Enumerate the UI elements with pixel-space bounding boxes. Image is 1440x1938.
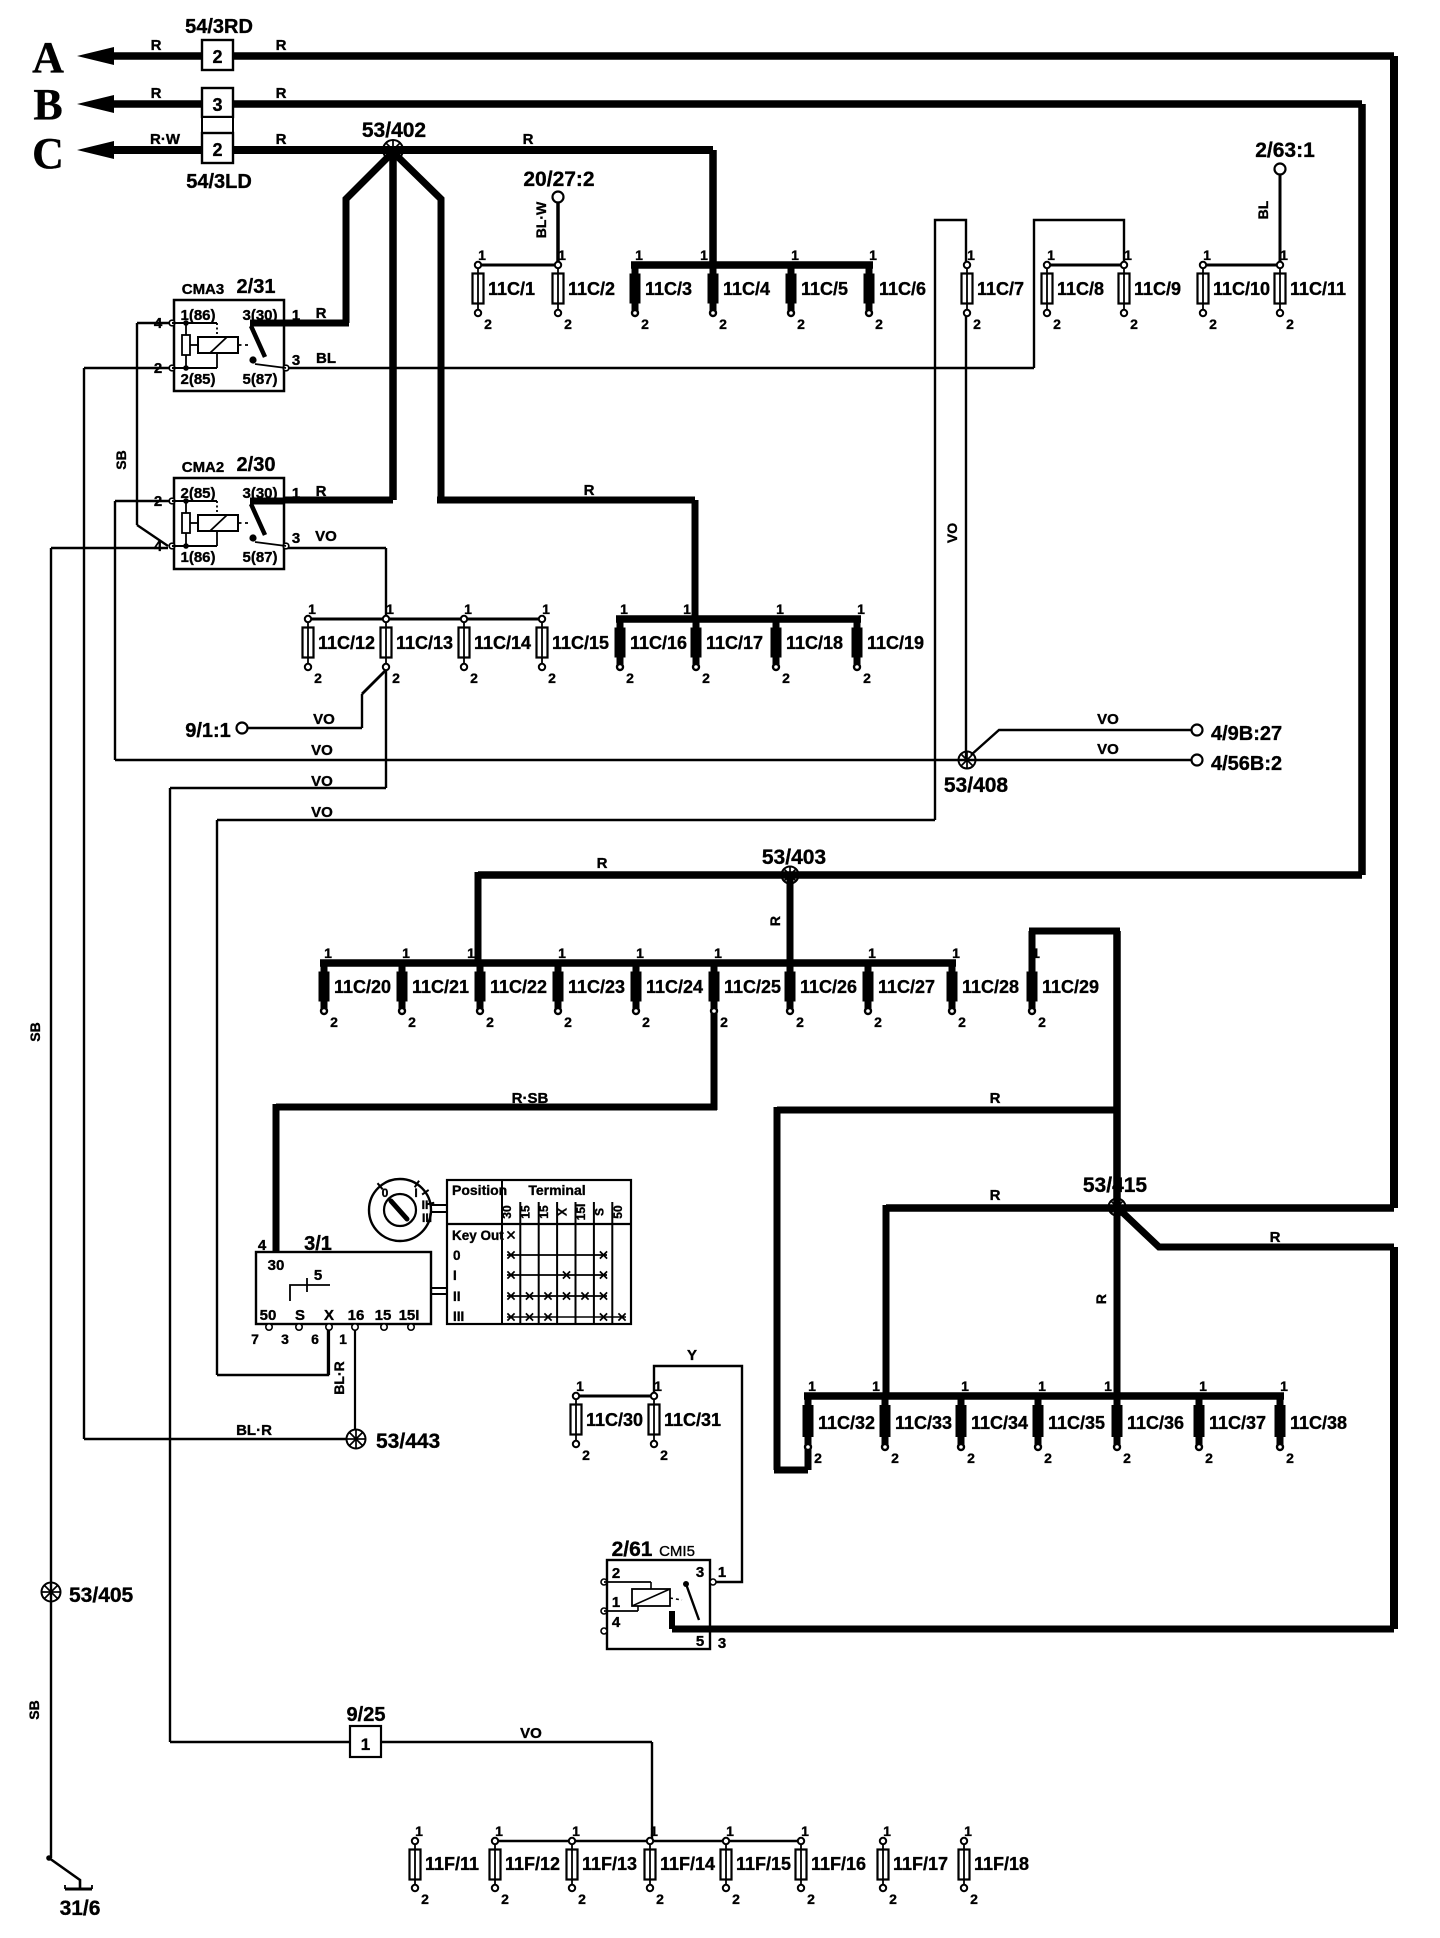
svg-text:53/415: 53/415 xyxy=(1083,1174,1148,1197)
svg-text:2: 2 xyxy=(484,316,492,332)
svg-text:2/61: 2/61 xyxy=(612,1538,653,1561)
svg-text:2: 2 xyxy=(330,1014,338,1030)
svg-text:11C/10: 11C/10 xyxy=(1213,279,1270,299)
svg-text:X: X xyxy=(556,1208,570,1216)
svg-text:3: 3 xyxy=(281,1331,289,1347)
svg-text:11C/8: 11C/8 xyxy=(1057,279,1104,299)
svg-text:1: 1 xyxy=(1104,1378,1112,1394)
svg-text:1: 1 xyxy=(872,1378,880,1394)
svg-text:30: 30 xyxy=(268,1257,285,1274)
svg-text:2: 2 xyxy=(154,360,162,377)
svg-text:2: 2 xyxy=(486,1014,494,1030)
svg-text:1: 1 xyxy=(1038,1378,1046,1394)
svg-text:R: R xyxy=(1270,1229,1281,1246)
svg-text:11C/22: 11C/22 xyxy=(490,977,547,997)
svg-text:R: R xyxy=(767,916,783,926)
svg-text:11C/4: 11C/4 xyxy=(723,279,770,299)
svg-text:11F/16: 11F/16 xyxy=(811,1854,866,1874)
svg-text:11C/23: 11C/23 xyxy=(568,977,625,997)
svg-text:1: 1 xyxy=(857,601,865,617)
svg-text:1: 1 xyxy=(1280,1378,1288,1394)
svg-text:R: R xyxy=(584,482,595,499)
svg-text:R: R xyxy=(523,131,534,148)
svg-text:20/27:2: 20/27:2 xyxy=(523,168,594,191)
svg-text:2/30: 2/30 xyxy=(237,454,276,476)
svg-text:15: 15 xyxy=(519,1205,533,1219)
svg-text:11C/25: 11C/25 xyxy=(724,977,781,997)
svg-text:1: 1 xyxy=(791,247,799,263)
svg-text:2: 2 xyxy=(797,316,805,332)
svg-text:7: 7 xyxy=(251,1331,259,1347)
svg-text:2/31: 2/31 xyxy=(237,276,276,298)
svg-text:2: 2 xyxy=(154,493,162,510)
svg-text:R: R xyxy=(990,1187,1001,1204)
svg-text:1: 1 xyxy=(714,945,722,961)
svg-text:1: 1 xyxy=(1203,247,1211,263)
svg-text:Terminal: Terminal xyxy=(528,1182,585,1198)
svg-text:11C/31: 11C/31 xyxy=(664,1410,721,1430)
svg-text:11C/26: 11C/26 xyxy=(800,977,857,997)
svg-text:11F/18: 11F/18 xyxy=(974,1854,1029,1874)
svg-text:11C/18: 11C/18 xyxy=(786,633,843,653)
svg-text:3/1: 3/1 xyxy=(304,1233,332,1255)
svg-text:I: I xyxy=(453,1268,457,1283)
svg-text:11C/15: 11C/15 xyxy=(552,633,609,653)
svg-text:11C/20: 11C/20 xyxy=(334,977,391,997)
svg-text:2: 2 xyxy=(408,1014,416,1030)
svg-text:1: 1 xyxy=(726,1823,734,1839)
svg-text:3: 3 xyxy=(212,95,222,115)
svg-text:5(87): 5(87) xyxy=(242,549,277,566)
svg-text:2: 2 xyxy=(719,316,727,332)
svg-text:1: 1 xyxy=(635,247,643,263)
svg-text:VO: VO xyxy=(313,711,335,728)
svg-text:BL·W: BL·W xyxy=(533,201,549,238)
svg-text:1: 1 xyxy=(700,247,708,263)
svg-text:4: 4 xyxy=(154,315,163,332)
svg-text:15I: 15I xyxy=(399,1307,420,1324)
svg-text:III: III xyxy=(422,1211,432,1225)
svg-text:2: 2 xyxy=(1123,1450,1131,1466)
svg-text:1: 1 xyxy=(1032,945,1040,961)
svg-text:0: 0 xyxy=(453,1248,461,1263)
svg-text:11C/12: 11C/12 xyxy=(318,633,375,653)
svg-text:R: R xyxy=(276,37,287,54)
svg-text:53/408: 53/408 xyxy=(944,774,1009,797)
svg-text:11F/15: 11F/15 xyxy=(736,1854,791,1874)
svg-text:11C/16: 11C/16 xyxy=(630,633,687,653)
svg-text:R: R xyxy=(276,85,287,102)
svg-text:1: 1 xyxy=(1047,247,1055,263)
svg-text:2(85): 2(85) xyxy=(180,485,215,502)
svg-text:R: R xyxy=(316,305,327,322)
svg-text:VO: VO xyxy=(311,773,333,790)
svg-text:2: 2 xyxy=(732,1891,740,1907)
svg-text:2: 2 xyxy=(1053,316,1061,332)
svg-text:11C/1: 11C/1 xyxy=(488,279,535,299)
svg-text:11C/9: 11C/9 xyxy=(1134,279,1181,299)
svg-text:1(86): 1(86) xyxy=(180,549,215,566)
svg-text:CMA2: CMA2 xyxy=(182,459,225,476)
svg-text:III: III xyxy=(453,1309,464,1324)
svg-text:2: 2 xyxy=(796,1014,804,1030)
svg-text:S: S xyxy=(593,1208,607,1216)
svg-text:31/6: 31/6 xyxy=(60,1897,101,1920)
svg-text:C: C xyxy=(32,129,64,178)
svg-text:4: 4 xyxy=(154,538,163,555)
svg-text:1: 1 xyxy=(1124,247,1132,263)
svg-text:9/25: 9/25 xyxy=(347,1704,386,1726)
svg-text:SB: SB xyxy=(113,450,129,469)
svg-text:1: 1 xyxy=(964,1823,972,1839)
svg-text:2: 2 xyxy=(1130,316,1138,332)
svg-text:VO: VO xyxy=(520,1725,542,1742)
svg-text:1: 1 xyxy=(415,1823,423,1839)
svg-text:2: 2 xyxy=(392,670,400,686)
svg-text:1: 1 xyxy=(361,1735,370,1754)
svg-text:VO: VO xyxy=(315,528,337,545)
svg-text:2: 2 xyxy=(1205,1450,1213,1466)
svg-text:11F/17: 11F/17 xyxy=(893,1854,948,1874)
svg-text:S: S xyxy=(295,1307,305,1324)
svg-text:CMI5: CMI5 xyxy=(659,1543,695,1560)
svg-text:2/63:1: 2/63:1 xyxy=(1255,139,1315,162)
svg-text:II: II xyxy=(422,1198,429,1212)
svg-text:2: 2 xyxy=(656,1891,664,1907)
svg-text:1: 1 xyxy=(961,1378,969,1394)
svg-text:11C/29: 11C/29 xyxy=(1042,977,1099,997)
svg-text:I: I xyxy=(414,1186,417,1200)
svg-text:VO: VO xyxy=(1097,711,1119,728)
svg-text:11C/7: 11C/7 xyxy=(977,279,1024,299)
svg-text:VO: VO xyxy=(311,742,333,759)
svg-text:1: 1 xyxy=(868,945,876,961)
svg-text:CMA3: CMA3 xyxy=(182,281,225,298)
svg-text:1: 1 xyxy=(324,945,332,961)
svg-text:3: 3 xyxy=(696,1564,704,1581)
svg-text:R: R xyxy=(1093,1294,1109,1304)
svg-text:VO: VO xyxy=(944,523,960,543)
svg-text:2: 2 xyxy=(973,316,981,332)
svg-text:1: 1 xyxy=(558,945,566,961)
svg-text:2: 2 xyxy=(814,1450,822,1466)
svg-text:SB: SB xyxy=(26,1700,42,1719)
svg-text:53/403: 53/403 xyxy=(762,846,826,869)
svg-text:R: R xyxy=(151,85,162,102)
svg-text:2: 2 xyxy=(470,670,478,686)
svg-text:3: 3 xyxy=(292,352,300,369)
svg-text:2: 2 xyxy=(641,316,649,332)
svg-text:VO: VO xyxy=(311,804,333,821)
svg-text:5(87): 5(87) xyxy=(242,371,277,388)
svg-text:3(30): 3(30) xyxy=(242,485,277,502)
svg-text:1: 1 xyxy=(808,1378,816,1394)
svg-text:4/9B:27: 4/9B:27 xyxy=(1211,723,1282,745)
svg-text:1(86): 1(86) xyxy=(180,307,215,324)
svg-text:0: 0 xyxy=(382,1186,389,1200)
svg-text:1: 1 xyxy=(467,945,475,961)
svg-text:1: 1 xyxy=(292,307,300,324)
svg-text:SB: SB xyxy=(27,1022,43,1041)
svg-text:3(30): 3(30) xyxy=(242,307,277,324)
svg-text:1: 1 xyxy=(612,1594,620,1611)
svg-text:1: 1 xyxy=(308,601,316,617)
svg-text:11C/30: 11C/30 xyxy=(586,1410,643,1430)
svg-text:2: 2 xyxy=(1286,316,1294,332)
svg-text:2: 2 xyxy=(970,1891,978,1907)
svg-text:2: 2 xyxy=(702,670,710,686)
svg-text:Key Out: Key Out xyxy=(452,1228,504,1243)
svg-text:11C/24: 11C/24 xyxy=(646,977,703,997)
svg-text:4/56B:2: 4/56B:2 xyxy=(1211,753,1282,775)
svg-text:II: II xyxy=(453,1289,461,1304)
svg-text:11C/14: 11C/14 xyxy=(474,633,531,653)
svg-text:1: 1 xyxy=(776,601,784,617)
svg-text:2: 2 xyxy=(1038,1014,1046,1030)
svg-text:3: 3 xyxy=(292,530,300,547)
svg-text:2: 2 xyxy=(612,1565,620,1582)
svg-text:11C/5: 11C/5 xyxy=(801,279,848,299)
svg-text:R: R xyxy=(151,37,162,54)
svg-text:11C/19: 11C/19 xyxy=(867,633,924,653)
svg-text:5: 5 xyxy=(314,1267,322,1284)
svg-text:53/405: 53/405 xyxy=(69,1584,134,1607)
svg-text:2: 2 xyxy=(501,1891,509,1907)
svg-text:54/3LD: 54/3LD xyxy=(186,171,252,193)
svg-text:1: 1 xyxy=(339,1331,347,1347)
svg-text:2: 2 xyxy=(967,1450,975,1466)
svg-text:11C/34: 11C/34 xyxy=(971,1413,1028,1433)
svg-text:50: 50 xyxy=(260,1307,277,1324)
svg-text:R: R xyxy=(597,855,608,872)
svg-text:1: 1 xyxy=(1280,247,1288,263)
svg-text:2: 2 xyxy=(212,140,222,160)
svg-text:11C/21: 11C/21 xyxy=(412,977,469,997)
svg-text:11C/38: 11C/38 xyxy=(1290,1413,1347,1433)
svg-text:BL: BL xyxy=(1255,200,1271,219)
svg-text:3: 3 xyxy=(718,1635,726,1652)
svg-text:R: R xyxy=(316,483,327,500)
svg-text:VO: VO xyxy=(1097,741,1119,758)
svg-text:BL·R: BL·R xyxy=(331,1361,347,1394)
svg-text:1: 1 xyxy=(718,1564,726,1581)
svg-text:2: 2 xyxy=(642,1014,650,1030)
svg-text:53/443: 53/443 xyxy=(376,1430,440,1453)
svg-text:4: 4 xyxy=(612,1614,621,1631)
svg-text:11C/27: 11C/27 xyxy=(878,977,935,997)
svg-text:2: 2 xyxy=(1286,1450,1294,1466)
svg-text:2: 2 xyxy=(807,1891,815,1907)
svg-text:53/402: 53/402 xyxy=(362,119,426,142)
svg-text:2: 2 xyxy=(314,670,322,686)
svg-text:11C/17: 11C/17 xyxy=(706,633,763,653)
svg-text:2: 2 xyxy=(582,1447,590,1463)
svg-text:1: 1 xyxy=(478,247,486,263)
svg-text:11C/33: 11C/33 xyxy=(895,1413,952,1433)
svg-text:2: 2 xyxy=(1044,1450,1052,1466)
svg-text:30: 30 xyxy=(500,1205,514,1219)
svg-text:2: 2 xyxy=(564,316,572,332)
svg-text:54/3RD: 54/3RD xyxy=(185,16,253,38)
svg-text:11C/36: 11C/36 xyxy=(1127,1413,1184,1433)
svg-text:11F/11: 11F/11 xyxy=(425,1854,479,1874)
svg-text:1: 1 xyxy=(542,601,550,617)
svg-text:2: 2 xyxy=(660,1447,668,1463)
svg-text:2: 2 xyxy=(875,316,883,332)
svg-text:1: 1 xyxy=(883,1823,891,1839)
svg-text:1: 1 xyxy=(869,247,877,263)
svg-text:1: 1 xyxy=(495,1823,503,1839)
svg-text:2(85): 2(85) xyxy=(180,371,215,388)
svg-text:2: 2 xyxy=(889,1891,897,1907)
svg-text:1: 1 xyxy=(967,247,975,263)
svg-text:11C/37: 11C/37 xyxy=(1209,1413,1266,1433)
svg-text:2: 2 xyxy=(958,1014,966,1030)
svg-text:50: 50 xyxy=(611,1205,625,1219)
svg-text:2: 2 xyxy=(421,1891,429,1907)
svg-text:11F/12: 11F/12 xyxy=(505,1854,560,1874)
svg-text:1: 1 xyxy=(650,1823,658,1839)
svg-text:16: 16 xyxy=(348,1307,365,1324)
svg-text:2: 2 xyxy=(782,670,790,686)
svg-text:2: 2 xyxy=(720,1014,728,1030)
svg-text:11C/13: 11C/13 xyxy=(396,633,453,653)
svg-text:9/1:1: 9/1:1 xyxy=(185,720,231,742)
svg-text:R: R xyxy=(276,131,287,148)
svg-text:15: 15 xyxy=(375,1307,392,1324)
svg-text:1: 1 xyxy=(620,601,628,617)
svg-text:R·W: R·W xyxy=(150,131,181,148)
svg-text:1: 1 xyxy=(952,945,960,961)
svg-text:2: 2 xyxy=(212,47,222,67)
svg-text:15I: 15I xyxy=(574,1204,588,1221)
svg-text:11C/11: 11C/11 xyxy=(1290,279,1346,299)
svg-text:2: 2 xyxy=(578,1891,586,1907)
svg-text:11C/35: 11C/35 xyxy=(1048,1413,1105,1433)
svg-text:6: 6 xyxy=(311,1331,319,1347)
svg-text:BL·R: BL·R xyxy=(236,1422,272,1439)
svg-text:Y: Y xyxy=(687,1347,697,1364)
svg-text:R·SB: R·SB xyxy=(512,1090,549,1107)
svg-text:4: 4 xyxy=(258,1237,267,1254)
svg-text:11C/32: 11C/32 xyxy=(818,1413,875,1433)
svg-text:11C/28: 11C/28 xyxy=(962,977,1019,997)
svg-text:5: 5 xyxy=(696,1633,704,1650)
svg-text:1: 1 xyxy=(464,601,472,617)
svg-text:2: 2 xyxy=(874,1014,882,1030)
svg-text:Position: Position xyxy=(452,1182,507,1198)
svg-text:1: 1 xyxy=(1199,1378,1207,1394)
svg-text:2: 2 xyxy=(564,1014,572,1030)
svg-text:1: 1 xyxy=(386,601,394,617)
svg-text:1: 1 xyxy=(636,945,644,961)
svg-text:2: 2 xyxy=(891,1450,899,1466)
svg-text:X: X xyxy=(324,1307,334,1324)
svg-text:2: 2 xyxy=(548,670,556,686)
svg-text:11F/13: 11F/13 xyxy=(582,1854,637,1874)
svg-text:1: 1 xyxy=(572,1823,580,1839)
svg-text:1: 1 xyxy=(558,247,566,263)
svg-text:1: 1 xyxy=(654,1378,662,1394)
svg-text:15: 15 xyxy=(537,1205,551,1219)
svg-text:1: 1 xyxy=(576,1378,584,1394)
svg-text:R: R xyxy=(990,1090,1001,1107)
svg-text:11C/3: 11C/3 xyxy=(645,279,692,299)
svg-text:B: B xyxy=(33,80,62,129)
svg-text:11F/14: 11F/14 xyxy=(660,1854,715,1874)
svg-text:11C/6: 11C/6 xyxy=(879,279,926,299)
svg-text:1: 1 xyxy=(292,485,300,502)
svg-text:1: 1 xyxy=(801,1823,809,1839)
svg-text:2: 2 xyxy=(863,670,871,686)
svg-text:1: 1 xyxy=(683,601,691,617)
svg-text:11C/2: 11C/2 xyxy=(568,279,615,299)
svg-text:2: 2 xyxy=(626,670,634,686)
svg-text:A: A xyxy=(32,33,64,82)
svg-text:BL: BL xyxy=(316,350,336,367)
svg-text:1: 1 xyxy=(402,945,410,961)
svg-text:2: 2 xyxy=(1209,316,1217,332)
